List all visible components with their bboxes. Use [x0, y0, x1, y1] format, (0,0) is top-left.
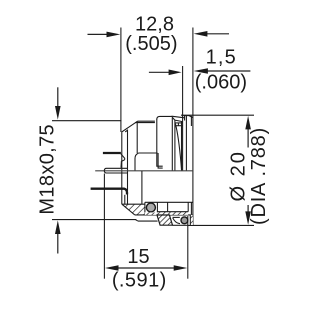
- section vertical inner: [141, 171, 143, 204]
- extension line top Ø20: [181, 114, 254, 116]
- bottom outline step slope: [136, 220, 138, 221]
- inner edge beside ext line: [181, 122, 183, 171]
- svg-text:M18x0,75: M18x0,75: [36, 124, 58, 215]
- ladder rung post: [177, 123, 179, 126]
- dimension arrow left 12,8: [88, 32, 121, 38]
- O-ring seal 2: [181, 217, 188, 224]
- band1 bottom edge: [135, 214, 193, 216]
- dimension line 15 with outward arrows: [105, 265, 187, 271]
- band1 top edge: [122, 203, 145, 205]
- extension line bottom M18: [52, 219, 136, 221]
- tongue top line: [173, 216, 180, 218]
- hatch band 3 (bezel section): [157, 215, 173, 225]
- thread start vertical: [136, 121, 138, 153]
- svg-text:15: 15: [127, 246, 149, 268]
- ring2 edge: [174, 120, 176, 171]
- svg-text:(.505): (.505): [125, 33, 177, 55]
- rear face inner line with chamfer: [125, 130, 127, 204]
- groove1 left wall: [144, 202, 146, 212]
- solder terminal 1 (thick): [103, 152, 121, 154]
- dimension arrow right 1,5: [194, 68, 251, 74]
- groove top line long: [145, 201, 193, 203]
- bezel top edge with chamfers: [183, 116, 192, 118]
- extension line top M18: [52, 120, 122, 122]
- tongue curve: [173, 218, 180, 224]
- groove1 right wall: [156, 202, 158, 215]
- thread root line top: [135, 122, 155, 124]
- dimension arrow right 12,8: [194, 31, 229, 37]
- front face inner line lower: [190, 202, 192, 225]
- groove2 right wall: [189, 215, 191, 226]
- locking ring left edge: [157, 119, 163, 166]
- front face inner line: [190, 116, 192, 126]
- front recess wall vertical: [187, 202, 189, 211]
- gasket hatch band 1: [122, 204, 145, 215]
- bottom outline front: [173, 224, 189, 226]
- hatch sliver right of groove 2: [190, 215, 193, 225]
- funnel line horizontal: [139, 152, 158, 154]
- terminal 1 bend: [121, 154, 125, 168]
- body profile curve: [175, 124, 181, 171]
- dimension arrow top Ø20 (pointing up): [245, 116, 251, 148]
- dimension arrow left 1,5: [149, 70, 182, 76]
- funnel curve: [135, 153, 139, 171]
- ladder rung lower: [175, 125, 182, 127]
- cone slant lower: [175, 120, 183, 122]
- svg-text:1,5: 1,5: [206, 47, 237, 69]
- front face outer line (also 12,8/1,5 extension): [192, 28, 194, 226]
- axis centerline: [95, 170, 193, 172]
- recess wall vertical: [167, 202, 169, 211]
- ladder rung upper: [175, 122, 183, 124]
- section vertical rear: [124, 195, 126, 204]
- svg-text:Ø 20: Ø 20: [227, 150, 249, 201]
- cone slant upper: [172, 116, 185, 118]
- svg-text:(DIA .788): (DIA .788): [248, 127, 270, 225]
- dimension arrow bottom M18 (pointing up): [55, 220, 61, 253]
- locking ring top edge with rounded corners: [157, 116, 175, 120]
- dimension arrow bottom Ø20 (pointing down): [245, 205, 251, 225]
- hatch strip under O-ring groove 1: [145, 212, 158, 215]
- dimension arrow top M18 (pointing down): [55, 87, 61, 119]
- rear chamfer and rear face outer: [122, 121, 138, 204]
- insert step vertical: [158, 153, 163, 168]
- hatch band 2: [157, 212, 188, 215]
- band2 top edge: [157, 211, 188, 213]
- extension line bottom Ø20: [188, 224, 254, 226]
- bezel chamfer edge: [185, 116, 187, 171]
- bottom outline mid: [138, 220, 158, 222]
- extension line right 15: [187, 216, 189, 279]
- extension line left 15: [103, 174, 105, 279]
- bezel left edge: [184, 116, 186, 121]
- extension line left of 1,5 dim: [182, 66, 184, 171]
- svg-text:(.591): (.591): [112, 270, 167, 292]
- solder terminal 3 (thick with hook): [91, 189, 127, 195]
- locking ring right edge: [171, 118, 173, 171]
- extension line left of 12,8 dim: [120, 28, 122, 132]
- svg-text:(.060): (.060): [195, 72, 247, 94]
- thread crest line top: [137, 120, 155, 122]
- O-ring seal 1: [146, 203, 155, 212]
- band1 slope edge: [122, 204, 135, 215]
- solder terminal 2 lozenge (center): [104, 168, 127, 173]
